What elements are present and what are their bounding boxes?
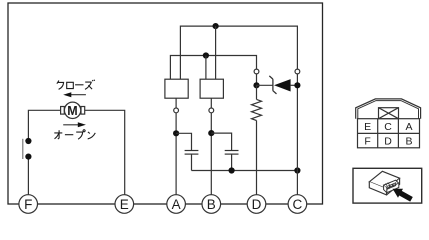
relay K1 coil [165,79,188,98]
enclosure box [8,3,323,204]
junction bottom bus / C branch [294,167,300,173]
terminal F [19,195,38,214]
capacitor C2 [225,151,239,155]
pin table [358,119,420,148]
wire branch to capacitor C2 [211,133,231,150]
connector housing roof outer [356,99,421,119]
wire bottom bus C1/C2 to C-branch [192,170,298,172]
wire C2 bottom to ground bus [231,154,233,170]
terminal E [115,195,134,214]
junction node A / C1 [173,130,179,136]
open arrow [63,122,86,127]
wire C branch contact down to terminal C [296,74,298,195]
junction zener right node [294,82,300,88]
svg-text:D: D [252,197,262,212]
wire node to resistor R1 [256,85,258,99]
junction node B / C2 [208,130,214,136]
switch S1 contact bottom [25,154,31,160]
switch S1 contact top [25,138,31,144]
resistor R1 [252,99,262,120]
svg-text:A: A [405,121,412,133]
wire top bus: relay K1 right coil lead, node B+ rail, down to C-branch contact [180,26,297,79]
junction top bus to K2 [213,23,219,29]
wire relay K2 right coil lead [215,26,217,79]
wire K1 output upper [175,98,177,108]
svg-text:M: M [67,104,77,118]
connector housing roof inner [358,101,419,119]
switch S1 blade [22,139,24,159]
wire C1 bottom to ground bus [191,154,193,170]
junction C2 on bottom bus [229,167,235,173]
svg-text:A: A [172,197,181,212]
label クローズ [57,80,95,90]
contact point C branch [295,69,300,74]
svg-text:B: B [405,135,412,147]
terminal D [247,195,266,214]
terminal A [167,195,186,214]
label オープン [54,130,95,140]
wire K2 output to junction and terminal B [210,113,212,195]
terminal C [288,195,307,214]
wire K1 output to junction and terminal A [175,113,177,195]
contact point K1 output [174,108,179,113]
svg-text:C: C [293,197,303,212]
svg-text:D: D [384,135,392,147]
connector keyway box [379,108,399,119]
svg-text:F: F [24,197,32,212]
wire motor left lead [28,110,60,141]
inset box [353,168,422,203]
svg-text:B: B [207,197,216,212]
contact point K2 output [209,108,214,113]
wire K2 output upper [210,98,212,108]
zener diode ZD1 [257,76,298,94]
svg-text:C: C [384,121,392,133]
terminal B [202,195,221,214]
capacitor C1 [185,151,199,155]
close arrow [63,92,86,97]
wire branch to capacitor C1 [176,133,191,150]
relay K2 coil [200,79,223,98]
motor M [61,102,85,118]
wire switch to terminal F [27,157,29,195]
junction second bus to K2 [203,52,209,58]
arrow pointer to connector [393,189,413,202]
connector 3d icon [369,171,399,195]
wire contact to zener node [256,74,258,86]
wire motor right lead to E [85,110,125,195]
wire R1 to terminal D [256,121,258,195]
wire relay K2 left coil lead [205,56,207,80]
contact point D branch [254,69,259,74]
wire second bus: K1 left coil lead, rail, down to D-branch contact [170,56,256,80]
svg-text:E: E [120,197,129,212]
svg-text:E: E [364,121,371,133]
junction zener left node [253,82,259,88]
svg-text:F: F [364,135,370,147]
